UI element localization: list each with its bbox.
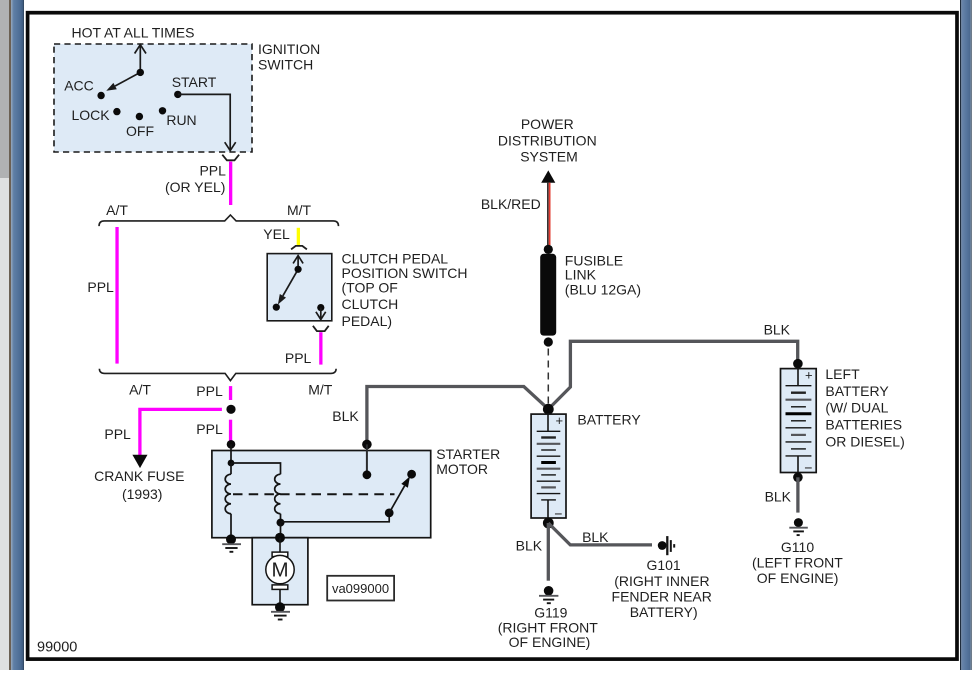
ignition switch S1 box — [54, 44, 252, 152]
node: motor top terminal — [275, 533, 285, 543]
connector half above clutch switch — [291, 246, 307, 250]
svg-text:OR DIESEL): OR DIESEL) — [825, 433, 904, 449]
svg-text:PPL: PPL — [196, 383, 223, 399]
svg-text:BLK: BLK — [582, 529, 609, 545]
wire YEL — [297, 228, 300, 246]
wire from START contact down to ignition output — [178, 94, 236, 150]
clutch switch input arrow — [293, 256, 303, 270]
svg-text:CRANK FUSE: CRANK FUSE — [94, 468, 184, 484]
wire PPL (OR YEL) from ignition — [229, 162, 232, 205]
svg-text:A/T: A/T — [129, 381, 151, 397]
svg-text:−: − — [804, 459, 812, 475]
ground (starter motor) — [271, 612, 290, 620]
wire coil junction to switch pivot — [281, 514, 390, 522]
label POWER DISTRIBUTION SYSTEM — [498, 116, 597, 165]
node: pull-in coil bottom junction — [277, 519, 285, 527]
motor M1 — [266, 538, 294, 605]
label BLK (to G101) — [582, 529, 609, 545]
svg-text:va099000: va099000 — [332, 581, 389, 596]
clutch switch output contact and arrow — [316, 304, 326, 320]
svg-text:BLK: BLK — [765, 488, 792, 504]
label 99000 — [37, 639, 77, 655]
ground (starter coil) — [222, 544, 241, 552]
svg-text:−: − — [554, 505, 562, 521]
svg-text:(RIGHT INNER: (RIGHT INNER — [614, 573, 709, 589]
ignition switch lever (pivot to ACC) — [106, 72, 140, 90]
svg-text:RUN: RUN — [166, 112, 196, 128]
svg-text:M/T: M/T — [308, 381, 333, 397]
label A/T (top) — [106, 202, 128, 218]
node: left battery negative terminal — [793, 473, 803, 483]
ground G110 — [789, 518, 808, 535]
svg-text:M/T: M/T — [287, 202, 312, 218]
wire PPL segment to junction — [229, 386, 232, 400]
svg-text:CLUTCH PEDAL: CLUTCH PEDAL — [342, 251, 449, 267]
contact LOCK — [71, 107, 120, 123]
label BATTERY — [577, 411, 641, 427]
svg-text:IGNITION: IGNITION — [258, 41, 320, 57]
svg-text:(1993): (1993) — [122, 486, 162, 502]
fusible link F1 — [540, 254, 556, 336]
wire BLK battery to starter — [367, 387, 548, 445]
solenoid pull-in coil L2 — [275, 474, 281, 522]
node: starter battery terminal — [363, 470, 372, 479]
wire PPL below clutch switch — [319, 332, 322, 364]
node: motor ground terminal — [275, 602, 285, 612]
wire BLK into starter — [366, 444, 368, 474]
node: clutch switch pivot — [295, 266, 302, 273]
node: fusible link top — [544, 245, 553, 254]
label HOT AT ALL TIMES — [72, 25, 195, 41]
node: battery negative terminal — [543, 518, 554, 529]
label BLK (battery to starter) — [332, 408, 359, 424]
svg-text:DISTRIBUTION: DISTRIBUTION — [498, 132, 597, 148]
svg-text:OFF: OFF — [126, 123, 154, 139]
svg-text:OF ENGINE): OF ENGINE) — [509, 634, 591, 650]
label A/T (bottom) — [129, 381, 151, 397]
svg-text:STARTER: STARTER — [436, 446, 500, 462]
svg-text:LINK: LINK — [565, 266, 597, 282]
svg-text:YEL: YEL — [263, 226, 290, 242]
svg-text:PEDAL): PEDAL) — [342, 313, 393, 329]
connector half below clutch switch — [313, 326, 329, 331]
left battery B2 — [781, 368, 817, 476]
svg-text:BLK: BLK — [764, 322, 791, 338]
svg-text:99000: 99000 — [37, 639, 77, 655]
svg-text:(OR YEL): (OR YEL) — [165, 179, 225, 195]
clutch switch lever — [278, 269, 298, 304]
wire BLK battery to right battery — [549, 341, 798, 408]
label LEFT BATTERY (W/ DUAL BATTERIES OR DIESEL) — [825, 366, 904, 449]
svg-text:SYSTEM: SYSTEM — [520, 149, 578, 165]
svg-text:OF ENGINE): OF ENGINE) — [757, 570, 839, 586]
label G110 (LEFT FRONT OF ENGINE) — [752, 539, 843, 586]
svg-text:LOCK: LOCK — [71, 107, 110, 123]
wire PPL segment to starter — [229, 420, 232, 441]
ground G101 — [658, 536, 674, 555]
wire BLK/RED — [547, 183, 551, 246]
crank fuse arrow — [132, 455, 147, 468]
svg-text:BLK: BLK — [516, 537, 543, 553]
svg-text:PPL: PPL — [285, 350, 312, 366]
svg-text:(BLU 12GA): (BLU 12GA) — [565, 282, 641, 298]
connector half below ignition switch — [222, 155, 239, 161]
node: BLK at starter box top — [362, 440, 372, 450]
wire BLK battery to G119 — [547, 523, 550, 581]
wire BLK battery to G101 — [548, 523, 652, 545]
arrow to power distribution system — [541, 170, 555, 182]
svg-text:PPL: PPL — [104, 426, 131, 442]
solenoid plunger linkage (dashed) — [233, 493, 395, 495]
label IGNITION SWITCH — [258, 41, 320, 73]
svg-text:G101: G101 — [646, 557, 680, 573]
svg-text:PPL: PPL — [196, 421, 223, 437]
contact START — [172, 74, 217, 98]
svg-text:LEFT: LEFT — [825, 366, 860, 382]
starter motor box — [212, 451, 431, 538]
wire from PPL terminal into starter — [230, 444, 232, 463]
solenoid hold-in coil L1 — [225, 463, 231, 537]
svg-text:FENDER NEAR: FENDER NEAR — [612, 588, 712, 604]
label G101 (RIGHT INNER FENDER NEAR BATTERY) — [612, 557, 712, 620]
node: fusible link bottom — [544, 337, 553, 346]
label G119 (RIGHT FRONT OF ENGINE) — [498, 604, 599, 650]
label PPL (below clutch switch) — [285, 350, 312, 366]
label M/T (top) — [287, 202, 312, 218]
contact RUN — [159, 107, 197, 128]
contact OFF — [126, 113, 154, 139]
svg-text:HOT AT ALL TIMES: HOT AT ALL TIMES — [72, 25, 195, 41]
solenoid switch lever — [389, 476, 410, 513]
label CLUTCH PEDAL POSITION SWITCH — [342, 251, 468, 330]
svg-text:POWER: POWER — [521, 116, 574, 132]
label STARTER MOTOR — [436, 446, 500, 477]
svg-text:ACC: ACC — [64, 77, 94, 93]
svg-text:(LEFT FRONT: (LEFT FRONT — [752, 554, 843, 570]
ignition feed arrow to HOT AT ALL TIMES — [135, 45, 146, 73]
svg-text:(TOP OF: (TOP OF — [342, 280, 398, 296]
svg-text:START: START — [172, 74, 217, 90]
node: solenoid switch contact — [407, 470, 416, 479]
label M/T (bottom) — [308, 381, 333, 397]
svg-text:BATTERY: BATTERY — [577, 411, 641, 427]
node: clutch switch lower contact — [273, 304, 280, 311]
contact ACC — [64, 77, 105, 99]
dashed wire fusible link to battery — [547, 349, 549, 404]
ground G119 — [539, 586, 558, 603]
svg-text:BATTERY: BATTERY — [825, 383, 889, 399]
brace merging A/T and M/T — [99, 369, 336, 381]
label CRANK FUSE (1993) — [94, 468, 184, 502]
node: coil ground terminal — [226, 534, 236, 544]
svg-text:(RIGHT FRONT: (RIGHT FRONT — [498, 619, 599, 635]
wire PPL to crank fuse — [140, 409, 222, 455]
wire junction to pull-in coil — [231, 463, 281, 474]
node: left battery positive terminal — [793, 359, 803, 369]
svg-text:BATTERIES: BATTERIES — [825, 417, 902, 433]
label YEL — [263, 226, 290, 242]
node: solenoid switch pivot — [385, 509, 394, 518]
label BLK (to G119) — [516, 537, 543, 553]
label FUSIBLE LINK (BLU 12GA) — [565, 253, 641, 298]
wire BLK left battery to G110 — [796, 477, 799, 512]
battery B1 — [531, 413, 566, 521]
svg-text:G110: G110 — [781, 539, 814, 555]
svg-text:PPL: PPL — [199, 162, 226, 178]
node: ignition pivot — [137, 69, 144, 76]
svg-text:A/T: A/T — [106, 202, 128, 218]
svg-text:+: + — [556, 413, 564, 428]
label PPL (A/T branch) — [87, 279, 114, 295]
node: solenoid coil top junction — [228, 460, 235, 467]
label BLK (to left battery) — [764, 322, 791, 338]
svg-text:BLK: BLK — [332, 408, 359, 424]
label PPL (crank branch) — [104, 426, 131, 442]
brace splitting A/T and M/T — [99, 215, 339, 226]
label PPL (OR YEL) — [165, 162, 226, 195]
label BLK (to G110) — [765, 488, 792, 504]
node: PPL junction — [226, 405, 235, 414]
svg-text:CLUTCH: CLUTCH — [342, 296, 399, 312]
svg-text:BLK/RED: BLK/RED — [481, 196, 541, 212]
node: battery positive terminal — [543, 404, 554, 415]
svg-text:PPL: PPL — [87, 279, 114, 295]
svg-text:(W/ DUAL: (W/ DUAL — [825, 399, 888, 415]
svg-text:M: M — [271, 559, 288, 582]
label PPL (merge) — [196, 383, 223, 399]
svg-text:SWITCH: SWITCH — [258, 56, 313, 72]
svg-text:BATTERY): BATTERY) — [630, 604, 698, 620]
svg-text:+: + — [805, 368, 813, 383]
va099000 reference box — [327, 576, 394, 601]
starter motor sub-box — [252, 538, 308, 605]
wire PPL A/T branch — [115, 227, 118, 364]
label PPL (to starter) — [196, 421, 223, 437]
node: PPL at starter terminal — [227, 440, 236, 449]
svg-text:G119: G119 — [534, 604, 567, 620]
svg-text:MOTOR: MOTOR — [436, 461, 488, 477]
clutch pedal position switch S2 box — [267, 254, 332, 321]
label BLK/RED — [481, 196, 541, 212]
wire coil junction to motor terminal — [280, 523, 282, 536]
